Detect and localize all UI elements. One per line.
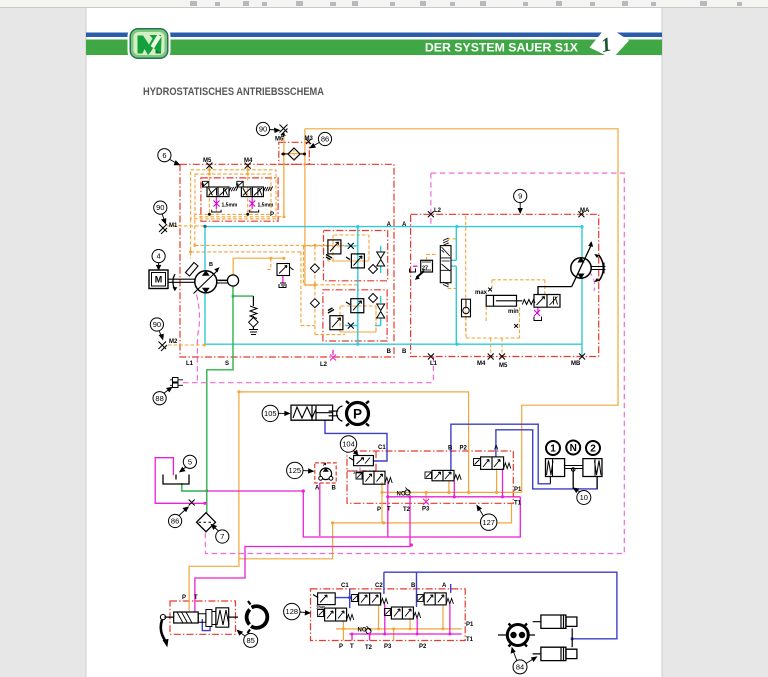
svg-text:M4: M4 [477,361,486,367]
svg-text:M4: M4 [244,158,253,164]
svg-text:128: 128 [286,607,299,616]
svg-text:L1: L1 [186,361,194,367]
svg-text:B: B [402,349,407,355]
svg-text:86: 86 [171,517,179,526]
svg-text:L2: L2 [434,208,442,214]
svg-text:27: 27 [422,266,428,272]
svg-text:B: B [332,486,337,492]
svg-text:T: T [387,507,391,513]
svg-text:M: M [155,275,163,285]
svg-text:S: S [225,361,229,367]
svg-text:P: P [270,212,274,218]
svg-text:1,5mm: 1,5mm [258,203,274,209]
svg-text:M2: M2 [169,339,178,345]
svg-text:10: 10 [580,493,588,502]
svg-text:1: 1 [550,444,556,455]
svg-text:T2: T2 [365,645,373,651]
svg-text:A: A [494,446,499,452]
svg-text:105: 105 [264,409,277,418]
svg-text:90: 90 [153,320,161,329]
svg-text:T1: T1 [514,501,522,507]
svg-text:5: 5 [188,457,192,466]
svg-text:HYDROSTATISCHES ANTRIEBSSCHEMA: HYDROSTATISCHES ANTRIEBSSCHEMA [143,86,324,98]
svg-text:P1: P1 [466,622,474,628]
svg-text:NO: NO [358,628,367,634]
svg-text:6: 6 [162,151,166,160]
svg-text:A: A [387,222,392,228]
svg-text:A: A [442,583,447,589]
svg-text:B: B [209,262,213,268]
svg-text:P: P [353,406,362,421]
svg-text:P: P [339,644,343,650]
svg-text:P2: P2 [419,644,427,650]
svg-text:86: 86 [321,135,329,144]
svg-text:MA: MA [580,208,590,214]
svg-text:M5: M5 [203,158,212,164]
svg-text:L2: L2 [320,362,328,368]
svg-text:127: 127 [482,518,495,527]
svg-text:125: 125 [289,466,302,475]
svg-text:A: A [315,486,320,492]
svg-text:M1: M1 [169,223,178,229]
svg-text:2: 2 [590,444,596,455]
svg-text:7: 7 [220,532,224,541]
svg-text:85: 85 [247,636,255,645]
svg-text:B: B [387,349,392,355]
svg-text:MB: MB [571,361,581,367]
svg-text:1bar: 1bar [353,470,362,475]
svg-text:P1: P1 [514,487,522,493]
svg-text:max: max [475,290,488,296]
svg-text:P2: P2 [460,446,468,452]
svg-text:M3: M3 [305,136,314,142]
svg-text:M5: M5 [499,363,508,369]
svg-text:T2: T2 [403,507,411,513]
svg-text:T: T [350,644,354,650]
svg-text:C2: C2 [375,583,383,589]
svg-text:88: 88 [155,394,163,403]
svg-text:P3: P3 [422,507,430,513]
svg-text:min: min [508,309,519,315]
svg-text:N: N [570,443,577,454]
svg-text:90: 90 [259,125,267,134]
svg-text:1,5mm: 1,5mm [222,203,238,209]
svg-text:1bar: 1bar [316,605,325,610]
svg-text:4: 4 [157,252,161,261]
svg-text:C1: C1 [341,583,349,589]
svg-text:C1: C1 [378,445,386,451]
svg-text:DER SYSTEM SAUER S1X: DER SYSTEM SAUER S1X [425,41,579,55]
svg-text:P: P [377,507,381,513]
svg-text:B: B [411,583,416,589]
svg-text:90: 90 [156,203,164,212]
svg-text:NO: NO [397,492,406,498]
svg-text:A: A [402,222,407,228]
svg-text:P3: P3 [384,644,392,650]
svg-text:104: 104 [342,440,355,449]
svg-text:M6: M6 [275,137,284,143]
svg-text:T: T [194,595,198,601]
svg-text:L1: L1 [430,361,438,367]
svg-text:P: P [182,595,186,601]
svg-text:B: B [448,446,453,452]
svg-text:T1: T1 [466,637,474,643]
svg-text:84: 84 [516,663,524,672]
svg-text:9: 9 [518,192,522,201]
